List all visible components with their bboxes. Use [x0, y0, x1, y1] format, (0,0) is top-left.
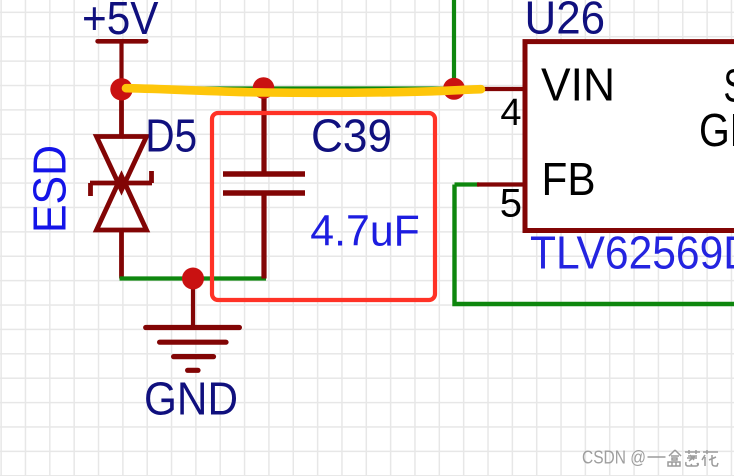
svg-text:CSDN @: CSDN @ [582, 448, 646, 468]
svg-text:4.7uF: 4.7uF [310, 207, 420, 256]
svg-text:D5: D5 [145, 110, 197, 162]
wire: green vertical up from VIN node [452, 0, 456, 89]
svg-text:ESD: ESD [24, 145, 76, 233]
svg-text:U26: U26 [525, 0, 606, 44]
wire: top net green +5V to VIN [122, 86, 455, 90]
svg-text:4: 4 [500, 92, 521, 134]
svg-text:5: 5 [500, 182, 522, 226]
IC U26 box [525, 42, 734, 231]
svg-text:C39: C39 [311, 110, 392, 162]
svg-text:TLV62569D: TLV62569D [530, 227, 734, 279]
power symbol +5V bar [98, 41, 147, 90]
wire: FB feedback green down and right [455, 185, 734, 305]
junction dot at +5V [110, 78, 132, 100]
pin 4 wire VIN [454, 87, 524, 91]
wire: bottom green GND net [120, 276, 267, 280]
pin 5 stub [477, 182, 524, 186]
wire: yellow highlight over top net [126, 88, 481, 93]
capacitor C39 [223, 88, 305, 279]
svg-text:FB: FB [542, 153, 596, 205]
diode D5 ESD TVS [90, 90, 152, 279]
svg-text:GND: GND [699, 104, 734, 156]
watermark CJK glyphs [648, 450, 719, 466]
svg-text:VIN: VIN [541, 59, 615, 111]
svg-text:GND: GND [144, 373, 238, 425]
pin 5 wire FB green part [455, 182, 480, 186]
svg-text:+5V: +5V [82, 0, 159, 44]
junction dot at C39 top [253, 77, 275, 99]
ground symbol [146, 279, 240, 371]
selection box around C39 [212, 113, 435, 300]
junction dot at GND net [182, 268, 204, 290]
junction dot at VIN node [443, 78, 465, 100]
